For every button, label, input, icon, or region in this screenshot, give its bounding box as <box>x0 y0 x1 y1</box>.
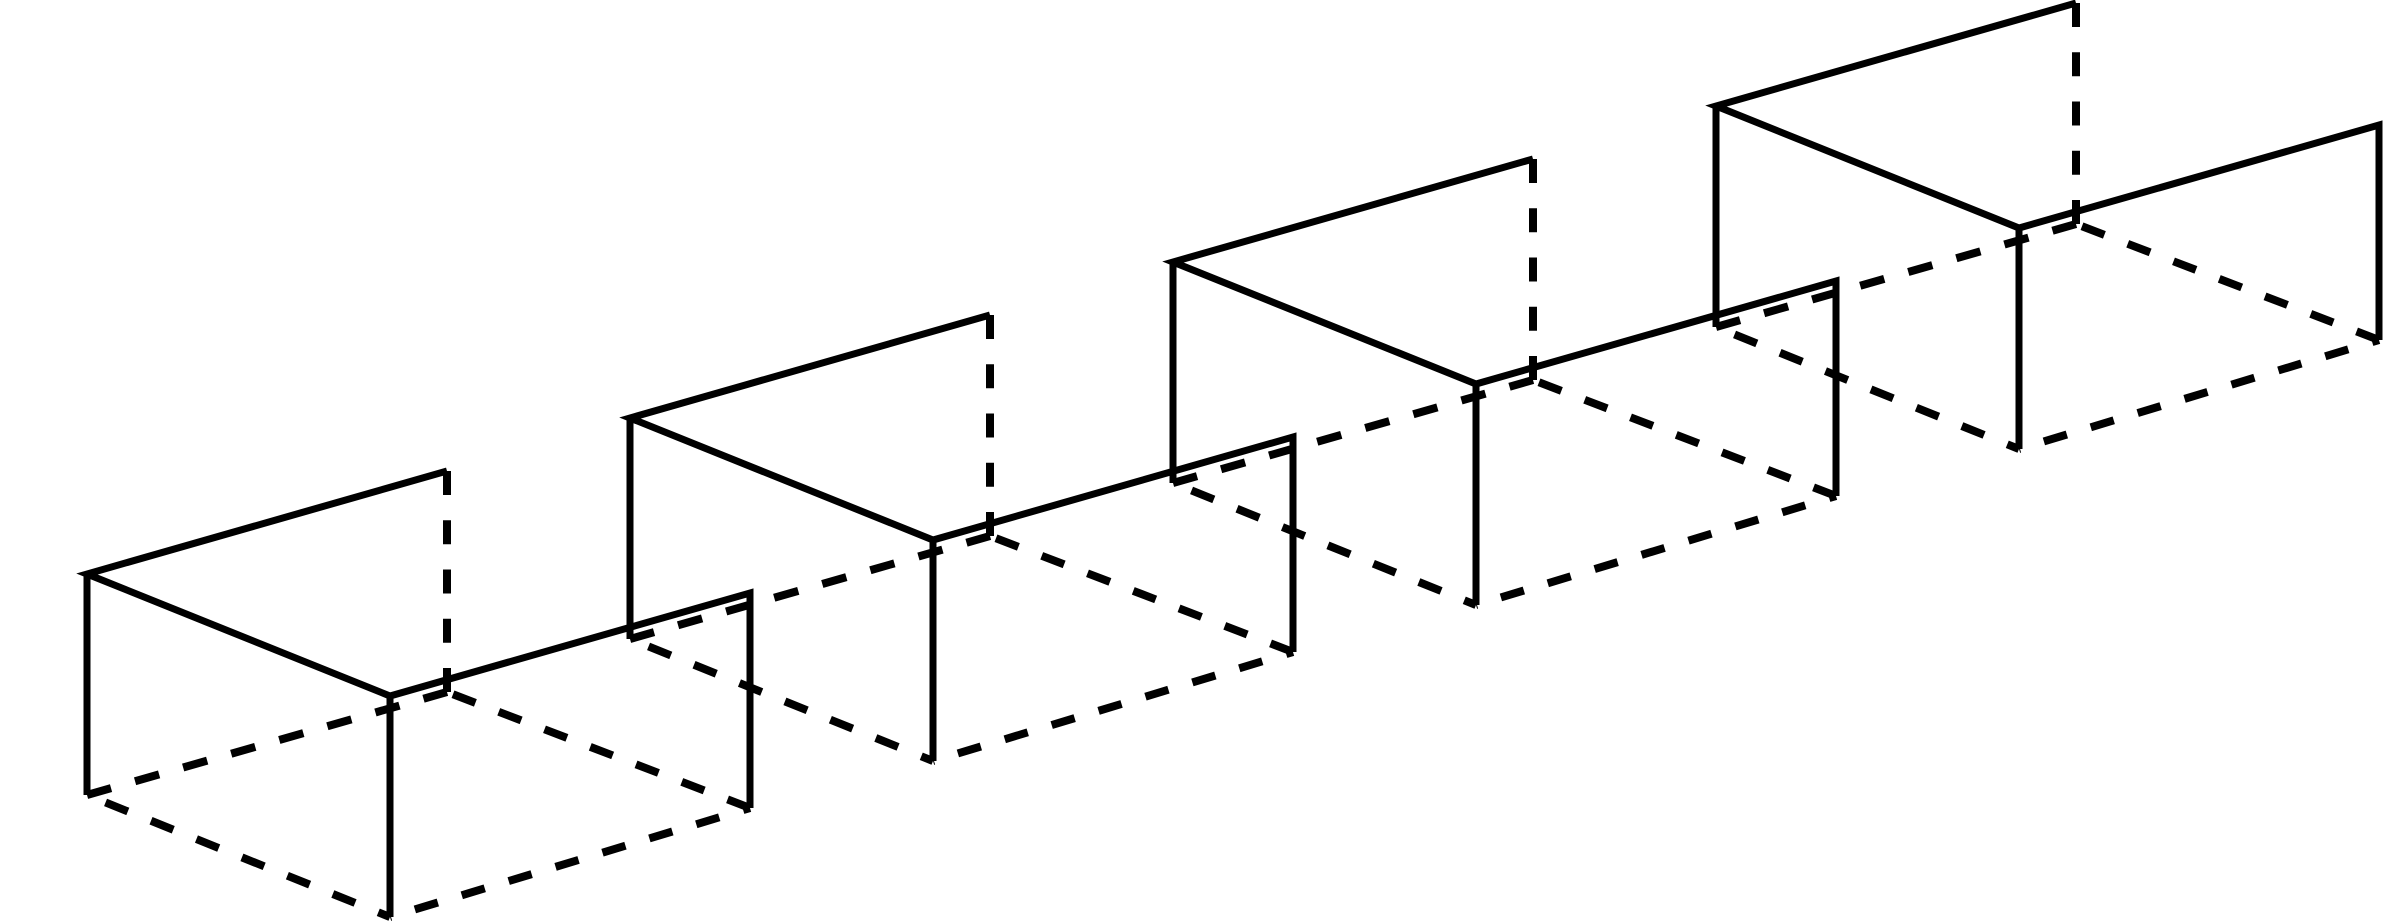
box 4 <box>1716 3 2379 449</box>
box 2 front-right vertical edge C-C' <box>930 540 937 761</box>
box 4 hidden bottom-back edge B'-D' (dashed) <box>2076 224 2379 340</box>
box 3 hidden bottom-back edge B'-D' (dashed) <box>1533 380 1836 496</box>
box 2 hidden bottom-right edge C'-D' (dashed) <box>933 652 1293 761</box>
box 1 hidden bottom-back edge B'-D' (dashed) <box>447 692 750 808</box>
box 4 hidden bottom-right edge C'-D' (dashed) <box>2019 340 2379 449</box>
box 3 hidden bottom-left edge A'-B' (dashed) <box>1173 380 1533 483</box>
box 1 front-right vertical edge C-C' <box>387 696 394 917</box>
box 2 hidden bottom-back edge B'-D' (dashed) <box>990 536 1293 652</box>
box 3 hidden back vertical edge B-B' (dashed) <box>1529 159 1537 380</box>
box 2 hidden back vertical edge B-B' (dashed) <box>986 315 994 536</box>
box 1 <box>87 471 750 917</box>
box 2 hidden bottom-left edge A'-B' (dashed) <box>630 536 990 639</box>
box 3 <box>1173 159 1836 605</box>
box 1 hidden bottom-front edge A'-C' (dashed) <box>87 795 390 917</box>
box 1 front-left vertical edge A-A' <box>84 574 91 795</box>
box 3 visible top rim and right vertical edge (B-A-C-D-D') <box>1173 159 1836 496</box>
box 1 hidden bottom-right edge C'-D' (dashed) <box>390 808 750 917</box>
box 4 hidden bottom-front edge A'-C' (dashed) <box>1716 327 2019 449</box>
box 1 hidden back vertical edge B-B' (dashed) <box>443 471 451 692</box>
box 3 hidden bottom-front edge A'-C' (dashed) <box>1173 483 1476 605</box>
box 4 front-right vertical edge C-C' <box>2016 228 2023 449</box>
box 1 hidden bottom-left edge A'-B' (dashed) <box>87 692 447 795</box>
box 4 hidden back vertical edge B-B' (dashed) <box>2072 3 2080 224</box>
box 3 front-right vertical edge C-C' <box>1473 384 1480 605</box>
box 3 front-left vertical edge A-A' <box>1170 262 1177 483</box>
box 1 visible top rim and right vertical edge (B-A-C-D-D') <box>87 471 750 808</box>
box 4 hidden bottom-left edge A'-B' (dashed) <box>1716 224 2076 327</box>
box 4 visible top rim and right vertical edge (B-A-C-D-D') <box>1716 3 2379 340</box>
box 4 front-left vertical edge A-A' <box>1713 106 1720 327</box>
box 2 visible top rim and right vertical edge (B-A-C-D-D') <box>630 315 1293 652</box>
box 2 <box>630 315 1293 761</box>
box 3 hidden bottom-right edge C'-D' (dashed) <box>1476 496 1836 605</box>
box 2 front-left vertical edge A-A' <box>627 418 634 639</box>
box 2 hidden bottom-front edge A'-C' (dashed) <box>630 639 933 761</box>
